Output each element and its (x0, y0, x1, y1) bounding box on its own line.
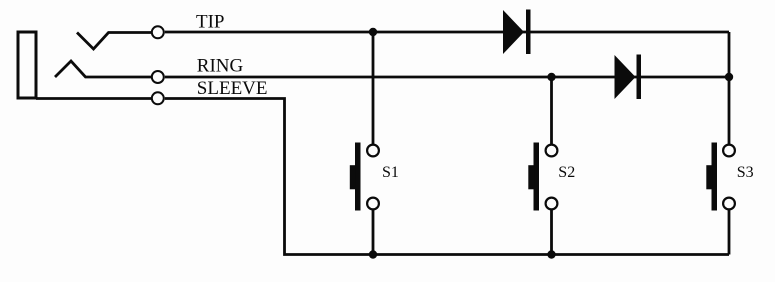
svg-text:S1: S1 (382, 164, 399, 181)
svg-text:TIP: TIP (196, 12, 225, 33)
svg-text:SLEEVE: SLEEVE (197, 78, 268, 99)
svg-text:RING: RING (197, 56, 244, 77)
svg-text:S2: S2 (558, 164, 575, 181)
svg-text:S3: S3 (737, 164, 754, 181)
